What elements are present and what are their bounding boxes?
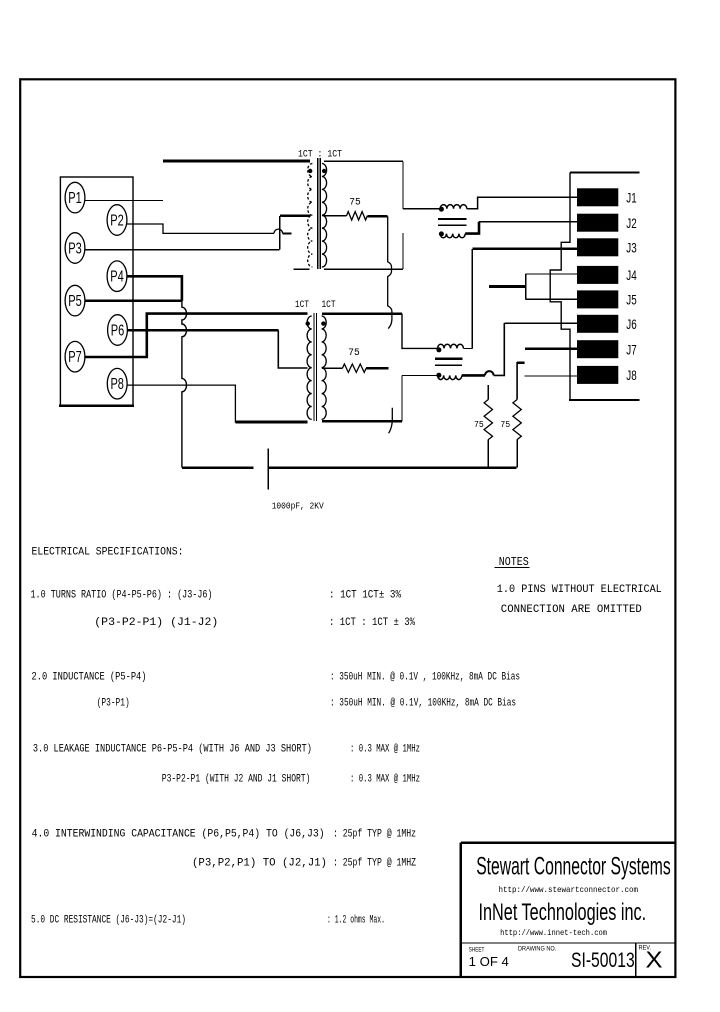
wire T1 primary center tap bbox=[280, 215, 310, 218]
svg-text:75: 75 bbox=[348, 347, 360, 359]
wire P5 bbox=[85, 300, 182, 303]
svg-text:SI-50013: SI-50013 bbox=[571, 948, 635, 972]
svg-text:2.0 INDUCTANCE (P5-P4): 2.0 INDUCTANCE (P5-P4) bbox=[32, 672, 147, 684]
T1 primary phase dot bbox=[308, 169, 312, 173]
wire T1 secondary top bbox=[324, 160, 403, 162]
pin P4 circle bbox=[107, 261, 127, 292]
choke L2 bottom phase dot bbox=[436, 373, 441, 378]
wire T1 secondary bottom bbox=[324, 268, 403, 270]
wire P7 to T2 primary top bbox=[85, 314, 308, 357]
J box left edge (zigzag around J4/J5 bracket) bbox=[550, 173, 570, 401]
title block frame bbox=[460, 843, 463, 977]
wire to J7 bbox=[525, 347, 577, 350]
transformer T1 secondary winding bbox=[322, 164, 327, 268]
svg-text:J2: J2 bbox=[626, 216, 636, 231]
resistor R4 bottom lead bbox=[516, 440, 518, 468]
transformer T1 primary winding (dashed) bbox=[308, 164, 313, 268]
wire to J8 bbox=[525, 375, 577, 377]
wire R1 output bbox=[367, 215, 387, 218]
J box top edge bbox=[570, 172, 640, 174]
wire T2 secondary top bbox=[322, 312, 402, 315]
transformer T1 core bbox=[317, 158, 319, 269]
svg-text:P5: P5 bbox=[68, 293, 82, 310]
svg-text:J4: J4 bbox=[626, 268, 637, 283]
svg-text:1 OF 4: 1 OF 4 bbox=[469, 954, 509, 969]
svg-text:J6: J6 bbox=[626, 317, 636, 332]
wire bus to capacitor C1 left bbox=[182, 466, 254, 469]
svg-text:: 350uH MIN. @ 0.1V, 100KHz, 8: : 350uH MIN. @ 0.1V, 100KHz, 8mA DC Bias bbox=[330, 698, 516, 710]
svg-text:P4: P4 bbox=[110, 269, 124, 286]
wire T2 secondary center tap to R2 bbox=[322, 367, 343, 369]
pin P1 circle bbox=[65, 182, 85, 213]
resistor R4 75ohm bbox=[513, 400, 521, 440]
svg-text:1.0 TURNS RATIO (P4-P5-P6) : (: 1.0 TURNS RATIO (P4-P5-P6) : (J3-J6) bbox=[31, 589, 213, 601]
svg-text:: 25pf TYP @ 1MHz: : 25pf TYP @ 1MHz bbox=[333, 829, 416, 841]
svg-text:: 0.3 MAX @ 1MHz: : 0.3 MAX @ 1MHz bbox=[350, 744, 420, 756]
wire choke L1 top to J1 bbox=[467, 197, 577, 209]
T2 primary phase dot bbox=[306, 321, 310, 325]
wire to choke L1 top bbox=[403, 208, 440, 210]
wire R1 output drop (hops over two wires, open end) bbox=[388, 216, 392, 328]
wire P3 riser to T1 primary center tap bbox=[279, 216, 281, 250]
svg-text:P3-P2-P1 (WITH J2 AND J1 SHORT: P3-P2-P1 (WITH J2 AND J1 SHORT) bbox=[162, 774, 311, 786]
pin P3 circle bbox=[65, 233, 85, 264]
svg-text:ELECTRICAL SPECIFICATIONS:: ELECTRICAL SPECIFICATIONS: bbox=[32, 547, 184, 559]
resistor R4 top lead and stub bbox=[517, 363, 525, 400]
wire to J4 bbox=[526, 273, 577, 275]
transformer T2 secondary winding bbox=[322, 316, 327, 419]
wire P6 to T2 primary center tap bbox=[278, 330, 307, 368]
contact J2 pad bbox=[577, 214, 618, 232]
svg-text:http://www.stewartconnector.co: http://www.stewartconnector.com bbox=[499, 885, 639, 895]
svg-text:(P3-P1): (P3-P1) bbox=[97, 698, 130, 710]
wire choke L2 top riser to J3 bbox=[471, 249, 473, 349]
connector P box bbox=[60, 177, 133, 406]
svg-text:P7: P7 bbox=[68, 349, 82, 366]
svg-text:(P3,P2,P1) TO (J2,J1): (P3,P2,P1) TO (J2,J1) bbox=[192, 858, 327, 870]
choke L2 core bars bbox=[435, 358, 463, 360]
svg-text:4.0 INTERWINDING CAPACITANCE (: 4.0 INTERWINDING CAPACITANCE (P6,P5,P4) … bbox=[32, 829, 325, 841]
svg-text:3.0 LEAKAGE INDUCTANCE P6-P5-P: 3.0 LEAKAGE INDUCTANCE P6-P5-P4 (WITH J6… bbox=[33, 744, 312, 756]
wire T1 secondary top riser to choke L1 bbox=[402, 161, 404, 209]
svg-text:J3: J3 bbox=[626, 241, 636, 256]
wire P1 stub (to transformer T1 primary top, drawn open) bbox=[85, 199, 163, 201]
capacitor C1 plate bbox=[267, 449, 269, 490]
contact J1 pad bbox=[577, 188, 618, 206]
choke L2 bottom winding bbox=[438, 375, 462, 379]
contact J5 pad bbox=[577, 290, 618, 308]
pin P7 circle bbox=[65, 341, 85, 372]
resistor R3 bottom lead bbox=[487, 440, 489, 468]
svg-text:(P3-P2-P1) (J1-J2): (P3-P2-P1) (J1-J2) bbox=[94, 617, 218, 629]
wire to J5 bbox=[526, 298, 577, 300]
resistor R3 top lead (open under hop) bbox=[487, 385, 489, 400]
contact J8 pad bbox=[577, 366, 618, 384]
svg-text:: 1CT : 1CT ± 3%: : 1CT : 1CT ± 3% bbox=[329, 617, 415, 629]
choke L2 top winding bbox=[438, 344, 464, 348]
choke L1 core bars bbox=[438, 218, 466, 220]
resistor R3 75ohm bbox=[484, 400, 492, 440]
pin P6 circle bbox=[108, 315, 128, 346]
wire T1 primary top bbox=[163, 160, 310, 163]
svg-text:P2: P2 bbox=[110, 212, 124, 229]
wire to J6 bbox=[504, 322, 577, 324]
wire to choke L2 bottom bbox=[402, 374, 437, 376]
wire capacitor C1 to R3/R4 bottoms bbox=[268, 466, 516, 469]
wire T2 secondary bottom bbox=[322, 420, 402, 423]
choke L1 top winding bbox=[440, 205, 467, 209]
wire P4 down to P5 junction bbox=[127, 276, 182, 301]
svg-text:CONNECTION ARE OMITTED: CONNECTION ARE OMITTED bbox=[501, 604, 642, 616]
wire P3 bbox=[85, 249, 280, 251]
svg-text:P6: P6 bbox=[111, 322, 125, 339]
J box bottom edge bbox=[569, 399, 640, 401]
wire choke L2 top lead bbox=[463, 347, 472, 349]
wire J4-J5 bracket bbox=[525, 274, 527, 299]
svg-text:InNet Technologies inc.: InNet Technologies inc. bbox=[479, 899, 647, 926]
wire P8 to T2 primary bottom bbox=[127, 385, 307, 422]
svg-text:http://www.innet-tech.com: http://www.innet-tech.com bbox=[500, 928, 607, 938]
T1 secondary phase dot bbox=[322, 169, 326, 173]
svg-text:: 0.3 MAX @ 1MHz: : 0.3 MAX @ 1MHz bbox=[350, 774, 420, 786]
contact J4 pad bbox=[577, 266, 618, 284]
pin P5 circle bbox=[65, 285, 85, 316]
wire T2 secondary top riser to choke L2 bbox=[402, 314, 437, 349]
contact J7 pad bbox=[577, 340, 618, 358]
svg-text:J7: J7 bbox=[626, 342, 636, 357]
resistor R1 75ohm bbox=[347, 212, 368, 220]
wire center stub to J4/J5 bracket bbox=[489, 285, 526, 288]
svg-text:J8: J8 bbox=[626, 368, 636, 383]
svg-text:5.0 DC RESISTANCE (J6-J3)=(J2-: 5.0 DC RESISTANCE (J6-J3)=(J2-J1) bbox=[31, 915, 186, 927]
svg-text:: 1CT 1CT± 3%: : 1CT 1CT± 3% bbox=[329, 589, 401, 601]
svg-text:1000pF, 2KV: 1000pF, 2KV bbox=[272, 500, 324, 511]
transformer T2 core bbox=[313, 313, 315, 421]
svg-text:Stewart Connector Systems: Stewart Connector Systems bbox=[476, 852, 671, 880]
T2 secondary phase dot bbox=[321, 321, 325, 325]
svg-text:75: 75 bbox=[349, 196, 361, 208]
wire T1 secondary bottom riser to choke L1 bbox=[402, 233, 404, 269]
contact J6 pad bbox=[577, 315, 618, 333]
notes heading underline bbox=[495, 567, 530, 569]
choke L1 top phase dot bbox=[439, 207, 444, 212]
wire T2 secondary bottom riser to choke L2 bbox=[401, 375, 403, 421]
svg-text:1CT: 1CT bbox=[322, 299, 336, 311]
resistor R2 75ohm bbox=[342, 364, 366, 372]
svg-text:P3: P3 bbox=[68, 240, 82, 257]
svg-text:: 350uH MIN. @ 0.1V , 100KHz,: : 350uH MIN. @ 0.1V , 100KHz, 8mA DC Bia… bbox=[330, 672, 520, 684]
svg-text:: 1.2 ohms Max.: : 1.2 ohms Max. bbox=[327, 915, 385, 927]
svg-text:1.0 PINS WITHOUT ELECTRICAL: 1.0 PINS WITHOUT ELECTRICAL bbox=[497, 584, 662, 596]
crossing hop remnant over T2 secondary bottom wire bbox=[389, 408, 393, 434]
svg-text:X: X bbox=[646, 946, 663, 972]
wire to J3 bbox=[472, 248, 577, 251]
wire choke L1 bottom to J2 bbox=[465, 222, 479, 234]
svg-text:P1: P1 bbox=[68, 190, 82, 207]
wire P4/P5 junction down to capacitor bus (hops over 3 wires) bbox=[182, 301, 187, 468]
svg-text:: 25pf TYP @ 1MHZ: : 25pf TYP @ 1MHZ bbox=[333, 858, 416, 870]
wire P2 to T1 primary (with hop over P3 riser) bbox=[127, 224, 274, 233]
svg-text:J1: J1 bbox=[626, 191, 636, 206]
wire T1 primary bottom stub bbox=[293, 268, 309, 270]
choke L2 top phase dot bbox=[436, 347, 441, 352]
svg-text:DRAWING NO.: DRAWING NO. bbox=[518, 946, 556, 953]
choke L1 bottom winding bbox=[440, 234, 465, 238]
svg-text:SHEET: SHEET bbox=[469, 946, 485, 953]
svg-text:1CT: 1CT bbox=[295, 299, 309, 311]
contact J3 pad bbox=[577, 238, 618, 256]
choke L1 bottom phase dot bbox=[439, 231, 444, 236]
svg-text:P8: P8 bbox=[110, 376, 124, 393]
transformer T2 primary winding bbox=[307, 316, 312, 419]
svg-text:J5: J5 bbox=[626, 293, 636, 308]
wire P6 bbox=[128, 329, 279, 332]
wire T1 secondary center tap to R1 bbox=[323, 215, 347, 217]
svg-text:75: 75 bbox=[500, 419, 510, 430]
pin P8 circle bbox=[107, 368, 127, 399]
wire R2 output (open end) bbox=[366, 367, 388, 370]
pin P2 circle bbox=[107, 205, 127, 236]
wire choke L2 bottom to J6 (hop over R3 lead) bbox=[462, 374, 485, 377]
svg-text:75: 75 bbox=[474, 419, 484, 430]
